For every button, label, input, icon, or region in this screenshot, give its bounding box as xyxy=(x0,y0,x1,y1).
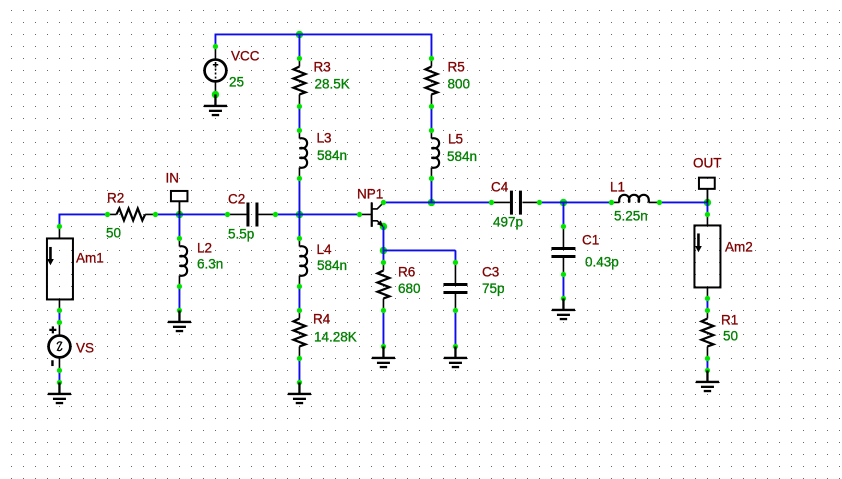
node junction collector / R5 column xyxy=(428,199,435,206)
tie OUT xyxy=(693,155,722,202)
wire Am2-R1 xyxy=(706,298,708,310)
wire L4-R4 xyxy=(298,286,300,310)
wire OUT node to Am2 xyxy=(706,202,708,214)
capacitor C3 xyxy=(443,260,504,313)
svg-text:6.3n: 6.3n xyxy=(197,256,223,271)
svg-text:800: 800 xyxy=(447,76,470,91)
wire emitter drop xyxy=(382,226,384,250)
resistor R3 xyxy=(293,56,349,109)
svg-text:NP1: NP1 xyxy=(357,186,383,201)
ground (R6) xyxy=(381,344,386,349)
wire R1-ground xyxy=(706,358,708,370)
inductor L2 xyxy=(177,236,223,289)
svg-text:0.43p: 0.43p xyxy=(585,254,619,269)
svg-text:L1: L1 xyxy=(610,179,625,194)
svg-text:C2: C2 xyxy=(228,191,245,206)
ground (C1) xyxy=(561,296,566,301)
svg-text:L4: L4 xyxy=(316,242,332,257)
ground (R1) xyxy=(705,368,710,373)
resistor R2 xyxy=(105,190,158,240)
wire source to R2 xyxy=(59,213,107,215)
node junction top bus / R3 xyxy=(296,31,303,38)
svg-text:C1: C1 xyxy=(582,232,599,247)
resistor R6 xyxy=(377,260,420,313)
wire collector bus xyxy=(383,201,491,203)
wire R6 top stub xyxy=(382,250,384,262)
svg-text:50: 50 xyxy=(106,225,121,240)
svg-text:680: 680 xyxy=(398,281,421,296)
svg-text:VCC: VCC xyxy=(231,48,260,63)
svg-text:L5: L5 xyxy=(448,131,463,146)
capacitor C4 xyxy=(489,179,542,229)
wire C3 top stub xyxy=(454,250,456,262)
svg-text:L2: L2 xyxy=(197,240,212,255)
resistor R4 xyxy=(293,308,356,361)
svg-text:584n: 584n xyxy=(317,148,347,163)
inductor L3 xyxy=(297,128,347,181)
wire Am1-VS xyxy=(58,310,60,322)
resistor R5 xyxy=(425,56,470,109)
inductor L4 xyxy=(297,236,347,289)
tie IN xyxy=(165,170,187,214)
svg-text:Am2: Am2 xyxy=(725,239,753,254)
wire VS-ground xyxy=(58,370,60,382)
ground (R4) xyxy=(297,380,302,385)
wire L3 to L4 through node xyxy=(298,178,300,238)
svg-text:R5: R5 xyxy=(447,59,464,74)
ground (C3) xyxy=(453,344,458,349)
battery VCC xyxy=(205,44,260,98)
wire C1-ground xyxy=(562,274,564,298)
svg-text:R6: R6 xyxy=(398,264,415,279)
wire C4 to L1 xyxy=(539,201,611,203)
wire L5 to collector node xyxy=(430,178,432,202)
wire R6-ground xyxy=(382,310,384,346)
node emitter pin NP1 xyxy=(380,223,387,230)
wire L2-ground xyxy=(178,286,180,310)
svg-text:OUT: OUT xyxy=(693,155,722,170)
svg-text:5.25n: 5.25n xyxy=(614,208,648,223)
node junction C4 / C1 xyxy=(560,199,567,206)
ground (L2) xyxy=(177,308,182,313)
node junction emitter / R6 xyxy=(380,247,387,254)
capacitor C2 xyxy=(225,191,278,241)
wire R5 top stub xyxy=(430,34,432,59)
svg-text:25: 25 xyxy=(229,74,244,89)
wire R2 to IN node xyxy=(155,213,179,215)
transistor NP1 xyxy=(357,186,386,226)
svg-text:R4: R4 xyxy=(313,311,331,326)
svg-text:C3: C3 xyxy=(482,264,499,279)
ammeter Am1 xyxy=(47,224,104,313)
wire Am1 top stub xyxy=(58,214,60,227)
wire C2 to base xyxy=(275,213,359,215)
wire C3-ground xyxy=(454,310,456,346)
svg-text:L3: L3 xyxy=(316,130,331,145)
inductor L1 xyxy=(609,179,662,223)
ground (VS) xyxy=(57,380,62,385)
svg-text:R3: R3 xyxy=(313,59,330,74)
svg-text:Am1: Am1 xyxy=(76,250,104,265)
svg-text:5.5p: 5.5p xyxy=(228,226,254,241)
svg-text:VS: VS xyxy=(76,340,94,355)
resistor R1 xyxy=(701,308,738,361)
node junction C2 / bias column xyxy=(296,211,303,218)
svg-text:584n: 584n xyxy=(447,149,477,164)
wire L1 to OUT node xyxy=(659,201,707,203)
wire C1 top stub xyxy=(562,202,564,226)
svg-text:R1: R1 xyxy=(721,312,738,327)
svg-text:497p: 497p xyxy=(493,214,523,229)
sine source VS xyxy=(49,320,94,373)
wire R4-ground xyxy=(298,358,300,382)
capacitor C1 xyxy=(551,224,618,277)
wire emitter bus xyxy=(383,249,455,251)
svg-text:50: 50 xyxy=(723,328,738,343)
wire VCC stub xyxy=(214,34,216,47)
wire R3-L3 xyxy=(298,106,300,130)
ammeter Am2 xyxy=(694,212,752,301)
wire R5-L5 xyxy=(430,106,432,130)
svg-text:584n: 584n xyxy=(317,258,347,273)
svg-text:IN: IN xyxy=(165,170,179,185)
node junction IN xyxy=(176,211,183,218)
wire IN node to C2 xyxy=(179,213,227,215)
svg-text:28.5K: 28.5K xyxy=(314,76,349,91)
wire IN node to L2 xyxy=(178,214,180,238)
svg-text:14.28K: 14.28K xyxy=(314,329,357,344)
wire top bus xyxy=(215,33,431,35)
svg-text:75p: 75p xyxy=(482,281,505,296)
svg-text:R2: R2 xyxy=(107,190,124,205)
svg-text:C4: C4 xyxy=(491,179,509,194)
inductor L5 xyxy=(429,128,477,181)
ground (VCC) xyxy=(204,94,227,115)
wire R3 top stub xyxy=(298,34,300,58)
node junction OUT xyxy=(704,199,711,206)
